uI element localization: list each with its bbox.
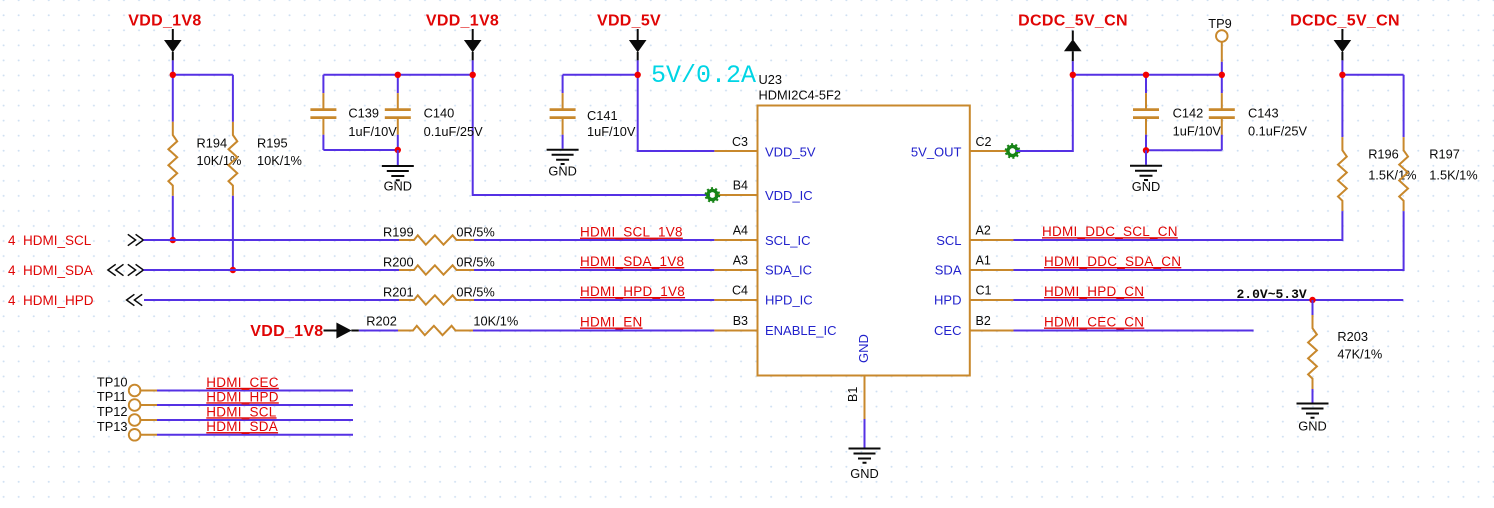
svg-text:10K/1%: 10K/1% <box>473 314 518 329</box>
svg-text:VDD_IC: VDD_IC <box>765 188 813 203</box>
svg-text:VDD_5V: VDD_5V <box>765 145 816 160</box>
svg-text:HDMI_HPD: HDMI_HPD <box>206 389 279 404</box>
pin B1 GND (bottom) <box>846 334 871 419</box>
svg-text:HDMI_CEC: HDMI_CEC <box>206 375 279 390</box>
port 4 HDMI_HPD <box>8 293 142 308</box>
svg-text:4 HDMI_SDA: 4 HDMI_SDA <box>8 263 93 278</box>
svg-text:TP11: TP11 <box>97 389 127 404</box>
svg-text:HDMI_SCL: HDMI_SCL <box>206 404 277 419</box>
wire VDD_5V drop to C3 <box>638 60 715 151</box>
pin B4 VDD_IC <box>714 179 812 204</box>
capacitor C143 <box>1209 93 1308 138</box>
wire HDMI_CEC_CN row <box>1014 330 1254 332</box>
svg-text:VDD_1V8: VDD_1V8 <box>128 13 201 30</box>
svg-text:C141: C141 <box>587 108 618 123</box>
wire cap rail bottom right <box>1146 149 1222 151</box>
junction VDD_5V rail <box>635 72 641 78</box>
svg-text:R197: R197 <box>1429 147 1460 162</box>
ground GND (C142/C143) <box>1130 166 1162 194</box>
wire C142 verticals <box>1145 75 1147 151</box>
svg-text:HDMI_EN: HDMI_EN <box>580 315 643 330</box>
capacitor C141 <box>550 93 636 139</box>
svg-text:0R/5%: 0R/5% <box>456 224 494 239</box>
svg-text:HDMI_HPD_1V8: HDMI_HPD_1V8 <box>580 284 685 299</box>
svg-text:VDD_1V8: VDD_1V8 <box>426 13 499 30</box>
svg-text:R194: R194 <box>197 135 228 150</box>
svg-text:10K/1%: 10K/1% <box>257 153 302 168</box>
pin A4 SCL_IC <box>714 224 810 249</box>
wire TP11 <box>157 404 353 406</box>
wire R195 verticals <box>232 75 234 270</box>
pin C3 VDD_5V <box>714 135 816 160</box>
svg-text:GND: GND <box>856 334 871 363</box>
svg-text:ENABLE_IC: ENABLE_IC <box>765 323 837 338</box>
junction R203 tap <box>1309 297 1315 303</box>
svg-text:VDD_1V8: VDD_1V8 <box>250 323 323 340</box>
svg-text:CEC: CEC <box>934 323 961 338</box>
svg-text:TP13: TP13 <box>97 419 128 434</box>
wire C139 verticals <box>322 75 324 150</box>
resistor R201 <box>383 284 495 304</box>
svg-text:A3: A3 <box>733 254 748 268</box>
resistor R199 <box>383 224 495 244</box>
wire R203 bottom <box>1312 389 1314 403</box>
svg-text:5V_OUT: 5V_OUT <box>911 145 962 160</box>
junction R194 to HDMI_SCL <box>170 237 176 243</box>
wire GND stub left pair <box>397 150 399 165</box>
svg-text:C140: C140 <box>424 105 455 120</box>
svg-text:TP10: TP10 <box>97 375 128 390</box>
svg-text:SCL: SCL <box>936 233 961 248</box>
svg-text:HPD_IC: HPD_IC <box>765 293 813 308</box>
no-connect marker B4 <box>706 188 720 202</box>
pin B2 CEC <box>934 314 1013 338</box>
junction C143/TP9 <box>1219 72 1225 78</box>
svg-text:HDMI_CEC_CN: HDMI_CEC_CN <box>1044 315 1144 330</box>
svg-text:HDMI_SDA: HDMI_SDA <box>206 419 278 434</box>
svg-text:B4: B4 <box>733 179 748 193</box>
svg-text:5V/0.2A: 5V/0.2A <box>651 61 756 90</box>
resistor R195 <box>229 122 302 196</box>
svg-text:2.0V~5.3V: 2.0V~5.3V <box>1237 287 1307 302</box>
wire R203 top <box>1312 300 1314 315</box>
wire cap rail bottom left <box>323 149 397 151</box>
test point TP13 <box>97 419 157 441</box>
svg-text:VDD_5V: VDD_5V <box>597 13 661 30</box>
pin A3 SDA_IC <box>714 254 812 278</box>
svg-text:1.5K/1%: 1.5K/1% <box>1368 168 1416 183</box>
svg-text:R202: R202 <box>366 313 397 328</box>
wire TP12 <box>157 419 353 421</box>
no-connect marker C2 <box>1006 144 1020 158</box>
wire HDMI_HPD_CN row <box>1014 299 1404 301</box>
svg-text:4 HDMI_SCL: 4 HDMI_SCL <box>8 233 92 248</box>
capacitor C139 <box>310 93 397 139</box>
svg-text:0.1uF/25V: 0.1uF/25V <box>1248 124 1308 139</box>
wire B1 to ground <box>864 419 866 448</box>
svg-text:C3: C3 <box>732 135 748 149</box>
wire C141 verticals <box>562 75 564 149</box>
svg-text:R200: R200 <box>383 254 414 269</box>
svg-text:SCL_IC: SCL_IC <box>765 233 811 248</box>
svg-text:C142: C142 <box>1173 106 1204 121</box>
wire C143 verticals <box>1221 75 1223 151</box>
pin A1 SDA <box>935 254 1014 278</box>
svg-text:GND: GND <box>850 466 878 481</box>
resistor R203 <box>1308 315 1382 389</box>
svg-text:TP12: TP12 <box>97 404 128 419</box>
wire R197 bottom to SDA wire <box>1014 211 1404 270</box>
svg-text:HDMI2C4-5F2: HDMI2C4-5F2 <box>759 88 842 103</box>
pin C1 HPD <box>934 284 1013 308</box>
svg-text:R195: R195 <box>257 135 288 150</box>
svg-text:C139: C139 <box>348 105 379 120</box>
wire GND stub right pair <box>1145 150 1147 165</box>
junction DCDC#2 rail <box>1339 72 1345 78</box>
wire VDD_1V8 vertical through R194 <box>172 60 174 240</box>
svg-text:HDMI_SDA_1V8: HDMI_SDA_1V8 <box>580 254 684 269</box>
power symbol DCDC_5V_CN (right) <box>1290 13 1400 61</box>
wire TP13 <box>157 434 353 436</box>
svg-text:1uF/10V: 1uF/10V <box>348 124 397 139</box>
svg-text:R203: R203 <box>1337 329 1368 344</box>
port 4 HDMI_SDA <box>8 263 143 278</box>
svg-text:GND: GND <box>1132 179 1160 194</box>
svg-text:HPD: HPD <box>934 293 961 308</box>
wire TP10 <box>157 390 353 392</box>
junction R195 to HDMI_SDA <box>230 267 236 273</box>
capacitor C142 <box>1133 93 1221 138</box>
pin B3 ENABLE_IC <box>714 314 836 338</box>
svg-text:GND: GND <box>548 164 576 179</box>
power symbol VDD_1V8 (at ENABLE) <box>250 323 359 341</box>
svg-text:C1: C1 <box>976 284 992 298</box>
svg-text:1uF/10V: 1uF/10V <box>587 124 636 139</box>
ground GND (B1) <box>849 449 881 482</box>
svg-text:47K/1%: 47K/1% <box>1337 347 1382 362</box>
svg-text:R201: R201 <box>383 284 414 299</box>
svg-text:0R/5%: 0R/5% <box>456 254 494 269</box>
wire DCDC#2 vertical + rail to R197 <box>1342 60 1403 137</box>
svg-text:DCDC_5V_CN: DCDC_5V_CN <box>1290 13 1400 30</box>
capacitor C140 <box>385 93 483 139</box>
IC U23 HDMI2C4-5F2 body <box>758 72 970 376</box>
resistor R202 <box>366 313 518 335</box>
wire VDD_1V8#2 drop to VDD_IC (B4) <box>473 60 715 195</box>
power symbol DCDC_5V_CN (left) <box>1018 13 1128 62</box>
svg-text:A4: A4 <box>733 224 748 238</box>
svg-text:DCDC_5V_CN: DCDC_5V_CN <box>1018 13 1128 30</box>
svg-text:TP9: TP9 <box>1208 16 1231 31</box>
resistor R200 <box>383 254 495 274</box>
wire C141 rail <box>563 74 638 76</box>
svg-text:0.1uF/25V: 0.1uF/25V <box>424 124 484 139</box>
power symbol VDD_1V8 (left) <box>128 13 201 61</box>
junction C142 bottom <box>1143 147 1149 153</box>
svg-text:B2: B2 <box>976 314 991 328</box>
wire R196 bottom to SCL wire <box>1014 211 1343 240</box>
svg-text:4 HDMI_HPD: 4 HDMI_HPD <box>8 293 94 308</box>
svg-text:SDA_IC: SDA_IC <box>765 263 812 278</box>
svg-text:U23: U23 <box>759 72 782 87</box>
svg-text:B3: B3 <box>733 314 748 328</box>
pin A2 SCL <box>936 224 1013 249</box>
svg-text:SDA: SDA <box>935 263 962 278</box>
junction C142 top <box>1143 72 1149 78</box>
svg-text:GND: GND <box>384 179 412 194</box>
junction C140 top <box>395 72 401 78</box>
svg-text:B1: B1 <box>846 387 860 402</box>
resistor R196 <box>1338 137 1417 211</box>
svg-text:0R/5%: 0R/5% <box>456 284 494 299</box>
svg-text:A1: A1 <box>976 254 991 268</box>
ground GND (C139/C140) <box>382 166 414 194</box>
pin C4 HPD_IC <box>714 284 812 308</box>
test point TP12 <box>97 404 157 426</box>
junction VDD_1V8#2 rail <box>470 72 476 78</box>
resistor R197 <box>1399 137 1477 211</box>
test point TP10 <box>97 375 157 397</box>
resistor R194 <box>168 122 241 196</box>
ground GND (C141) <box>547 150 579 179</box>
svg-text:C2: C2 <box>976 135 992 149</box>
wire C140 verticals <box>397 75 399 150</box>
junction DCDC rail left <box>1070 72 1076 78</box>
wire DCDC drop to C2 <box>1016 61 1073 151</box>
power symbol VDD_1V8 (second) <box>426 13 499 61</box>
wire DCDC rail <box>1073 74 1222 76</box>
junction C140 bottom <box>395 147 401 153</box>
svg-text:1.5K/1%: 1.5K/1% <box>1429 168 1477 183</box>
test point TP9 <box>1208 16 1231 62</box>
wire TP9 to rail <box>1221 62 1223 75</box>
svg-text:HDMI_SCL_1V8: HDMI_SCL_1V8 <box>580 225 683 240</box>
junction VDD_1V8 rail <box>170 72 176 78</box>
svg-text:C4: C4 <box>732 284 748 298</box>
wire HDMI_EN row <box>359 330 715 332</box>
svg-text:HDMI_HPD_CN: HDMI_HPD_CN <box>1044 284 1144 299</box>
svg-text:HDMI_DDC_SDA_CN: HDMI_DDC_SDA_CN <box>1044 254 1181 269</box>
power symbol VDD_5V <box>597 13 661 61</box>
svg-text:1uF/10V: 1uF/10V <box>1173 124 1222 139</box>
svg-text:A2: A2 <box>976 224 991 238</box>
wire HDMI_SDA row <box>144 269 715 271</box>
svg-text:R196: R196 <box>1368 147 1399 162</box>
port 4 HDMI_SCL <box>8 233 143 248</box>
wire HDMI_HPD row <box>144 299 714 301</box>
test point TP11 <box>97 389 157 411</box>
svg-text:GND: GND <box>1298 419 1326 434</box>
wire HDMI_SCL row <box>144 239 715 241</box>
svg-text:R199: R199 <box>383 224 414 239</box>
pin C2 5V_OUT <box>911 135 1008 160</box>
wire VDD_1V8 rail to R195 <box>173 74 233 76</box>
wire cap rail top left <box>323 74 472 76</box>
svg-text:HDMI_DDC_SCL_CN: HDMI_DDC_SCL_CN <box>1042 224 1178 239</box>
ground GND (R203) <box>1297 404 1329 434</box>
svg-text:C143: C143 <box>1248 106 1279 121</box>
